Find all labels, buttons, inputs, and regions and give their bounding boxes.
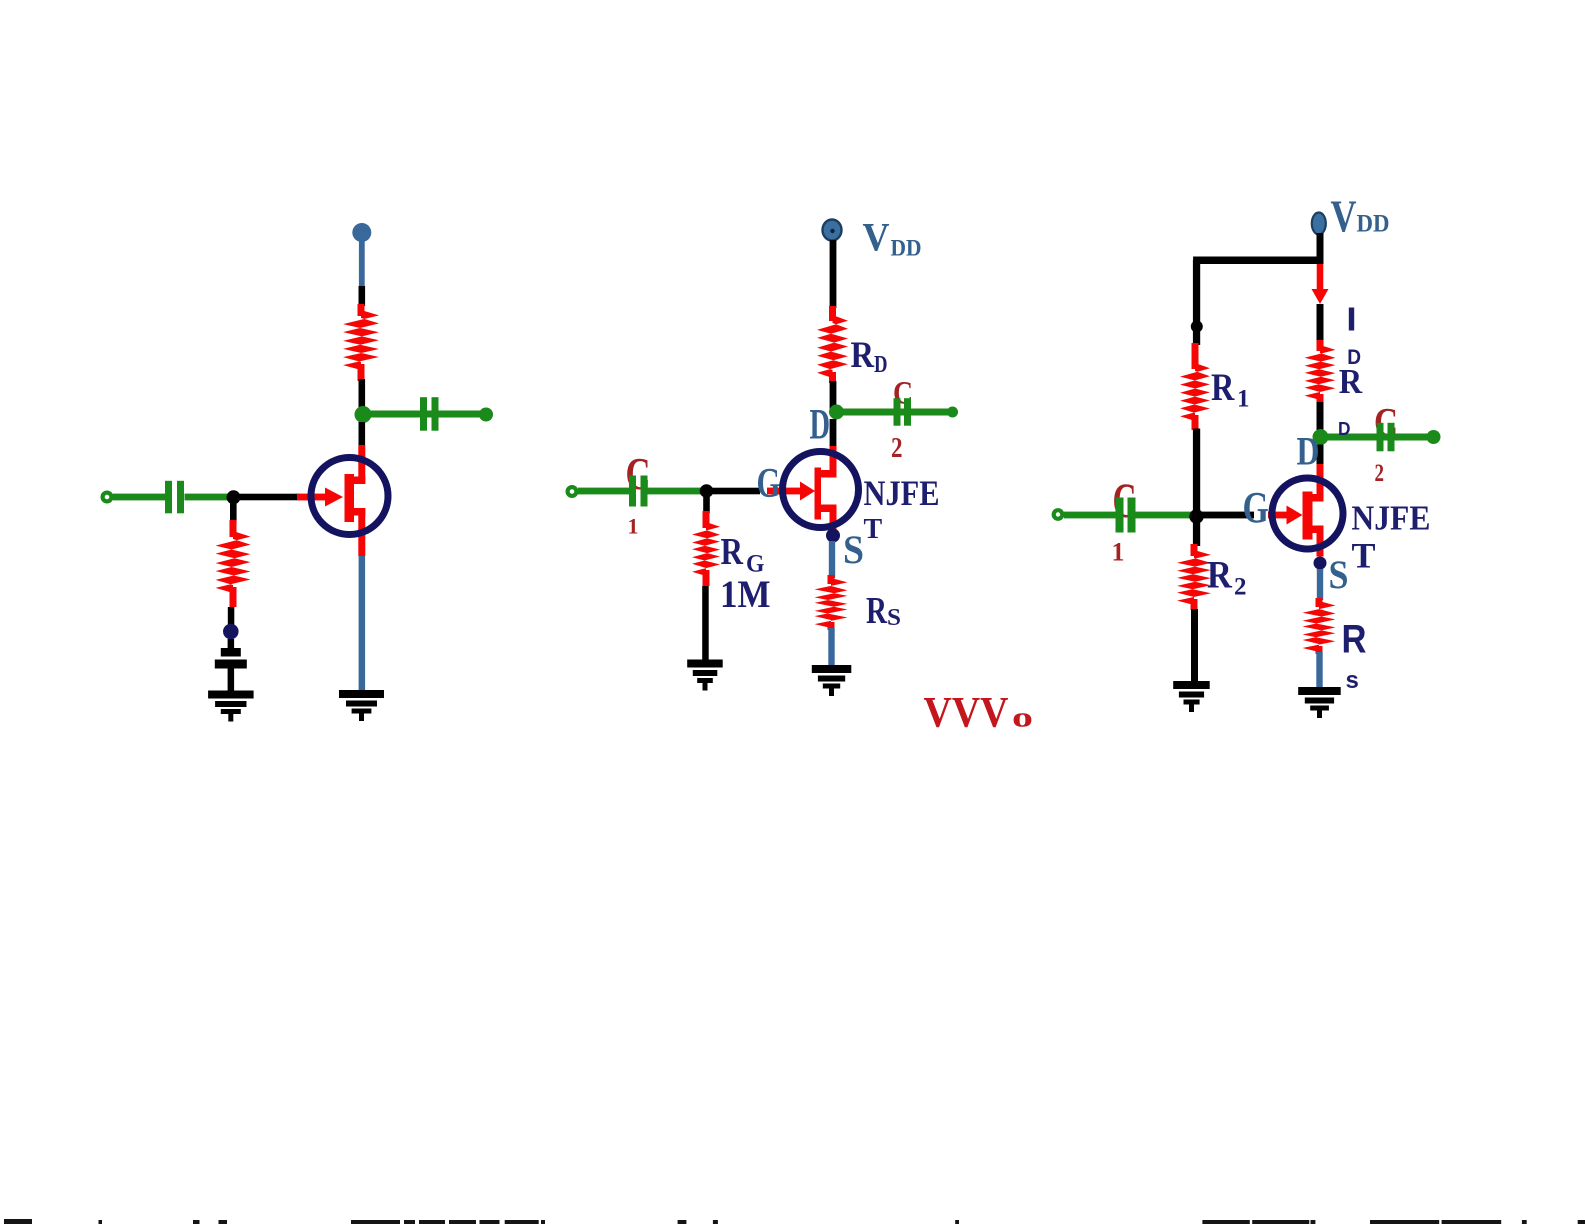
svg-text:2: 2 [1375, 460, 1385, 487]
svg-text:G: G [1243, 483, 1269, 532]
svg-text:R: R [1207, 554, 1233, 597]
svg-text:D: D [874, 352, 888, 378]
svg-text:R: R [851, 335, 876, 376]
svg-text:S: S [1329, 552, 1349, 597]
svg-text:1M: 1M [720, 573, 771, 616]
svg-text:1: 1 [628, 514, 639, 539]
svg-text:D: D [810, 402, 831, 449]
svg-text:R: R [1339, 362, 1363, 401]
svg-text:NJFE: NJFE [1351, 499, 1430, 538]
svg-text:R: R [721, 531, 744, 573]
svg-text:T: T [1352, 536, 1376, 576]
svg-text:S: S [887, 605, 901, 631]
svg-text:V: V [863, 215, 890, 260]
svg-text:S: S [843, 527, 864, 572]
svg-text:R: R [1211, 366, 1235, 409]
svg-text:R: R [866, 590, 887, 632]
svg-text:1: 1 [1112, 538, 1125, 567]
svg-text:T: T [864, 514, 883, 545]
svg-text:VVV: VVV [924, 690, 1009, 737]
svg-text:1: 1 [1237, 386, 1250, 413]
svg-text:DD: DD [891, 236, 922, 261]
svg-text:G: G [757, 461, 781, 507]
svg-text:o: o [1012, 702, 1033, 734]
svg-text:D: D [1338, 419, 1351, 439]
svg-text:D: D [1297, 429, 1320, 474]
svg-text:V: V [1331, 192, 1357, 242]
svg-text:2: 2 [891, 432, 903, 464]
svg-text:R: R [1342, 618, 1367, 662]
svg-text:s: s [1346, 667, 1359, 694]
svg-text:NJFE: NJFE [864, 473, 940, 513]
svg-text:2: 2 [1234, 574, 1247, 601]
svg-text:DD: DD [1357, 211, 1390, 238]
